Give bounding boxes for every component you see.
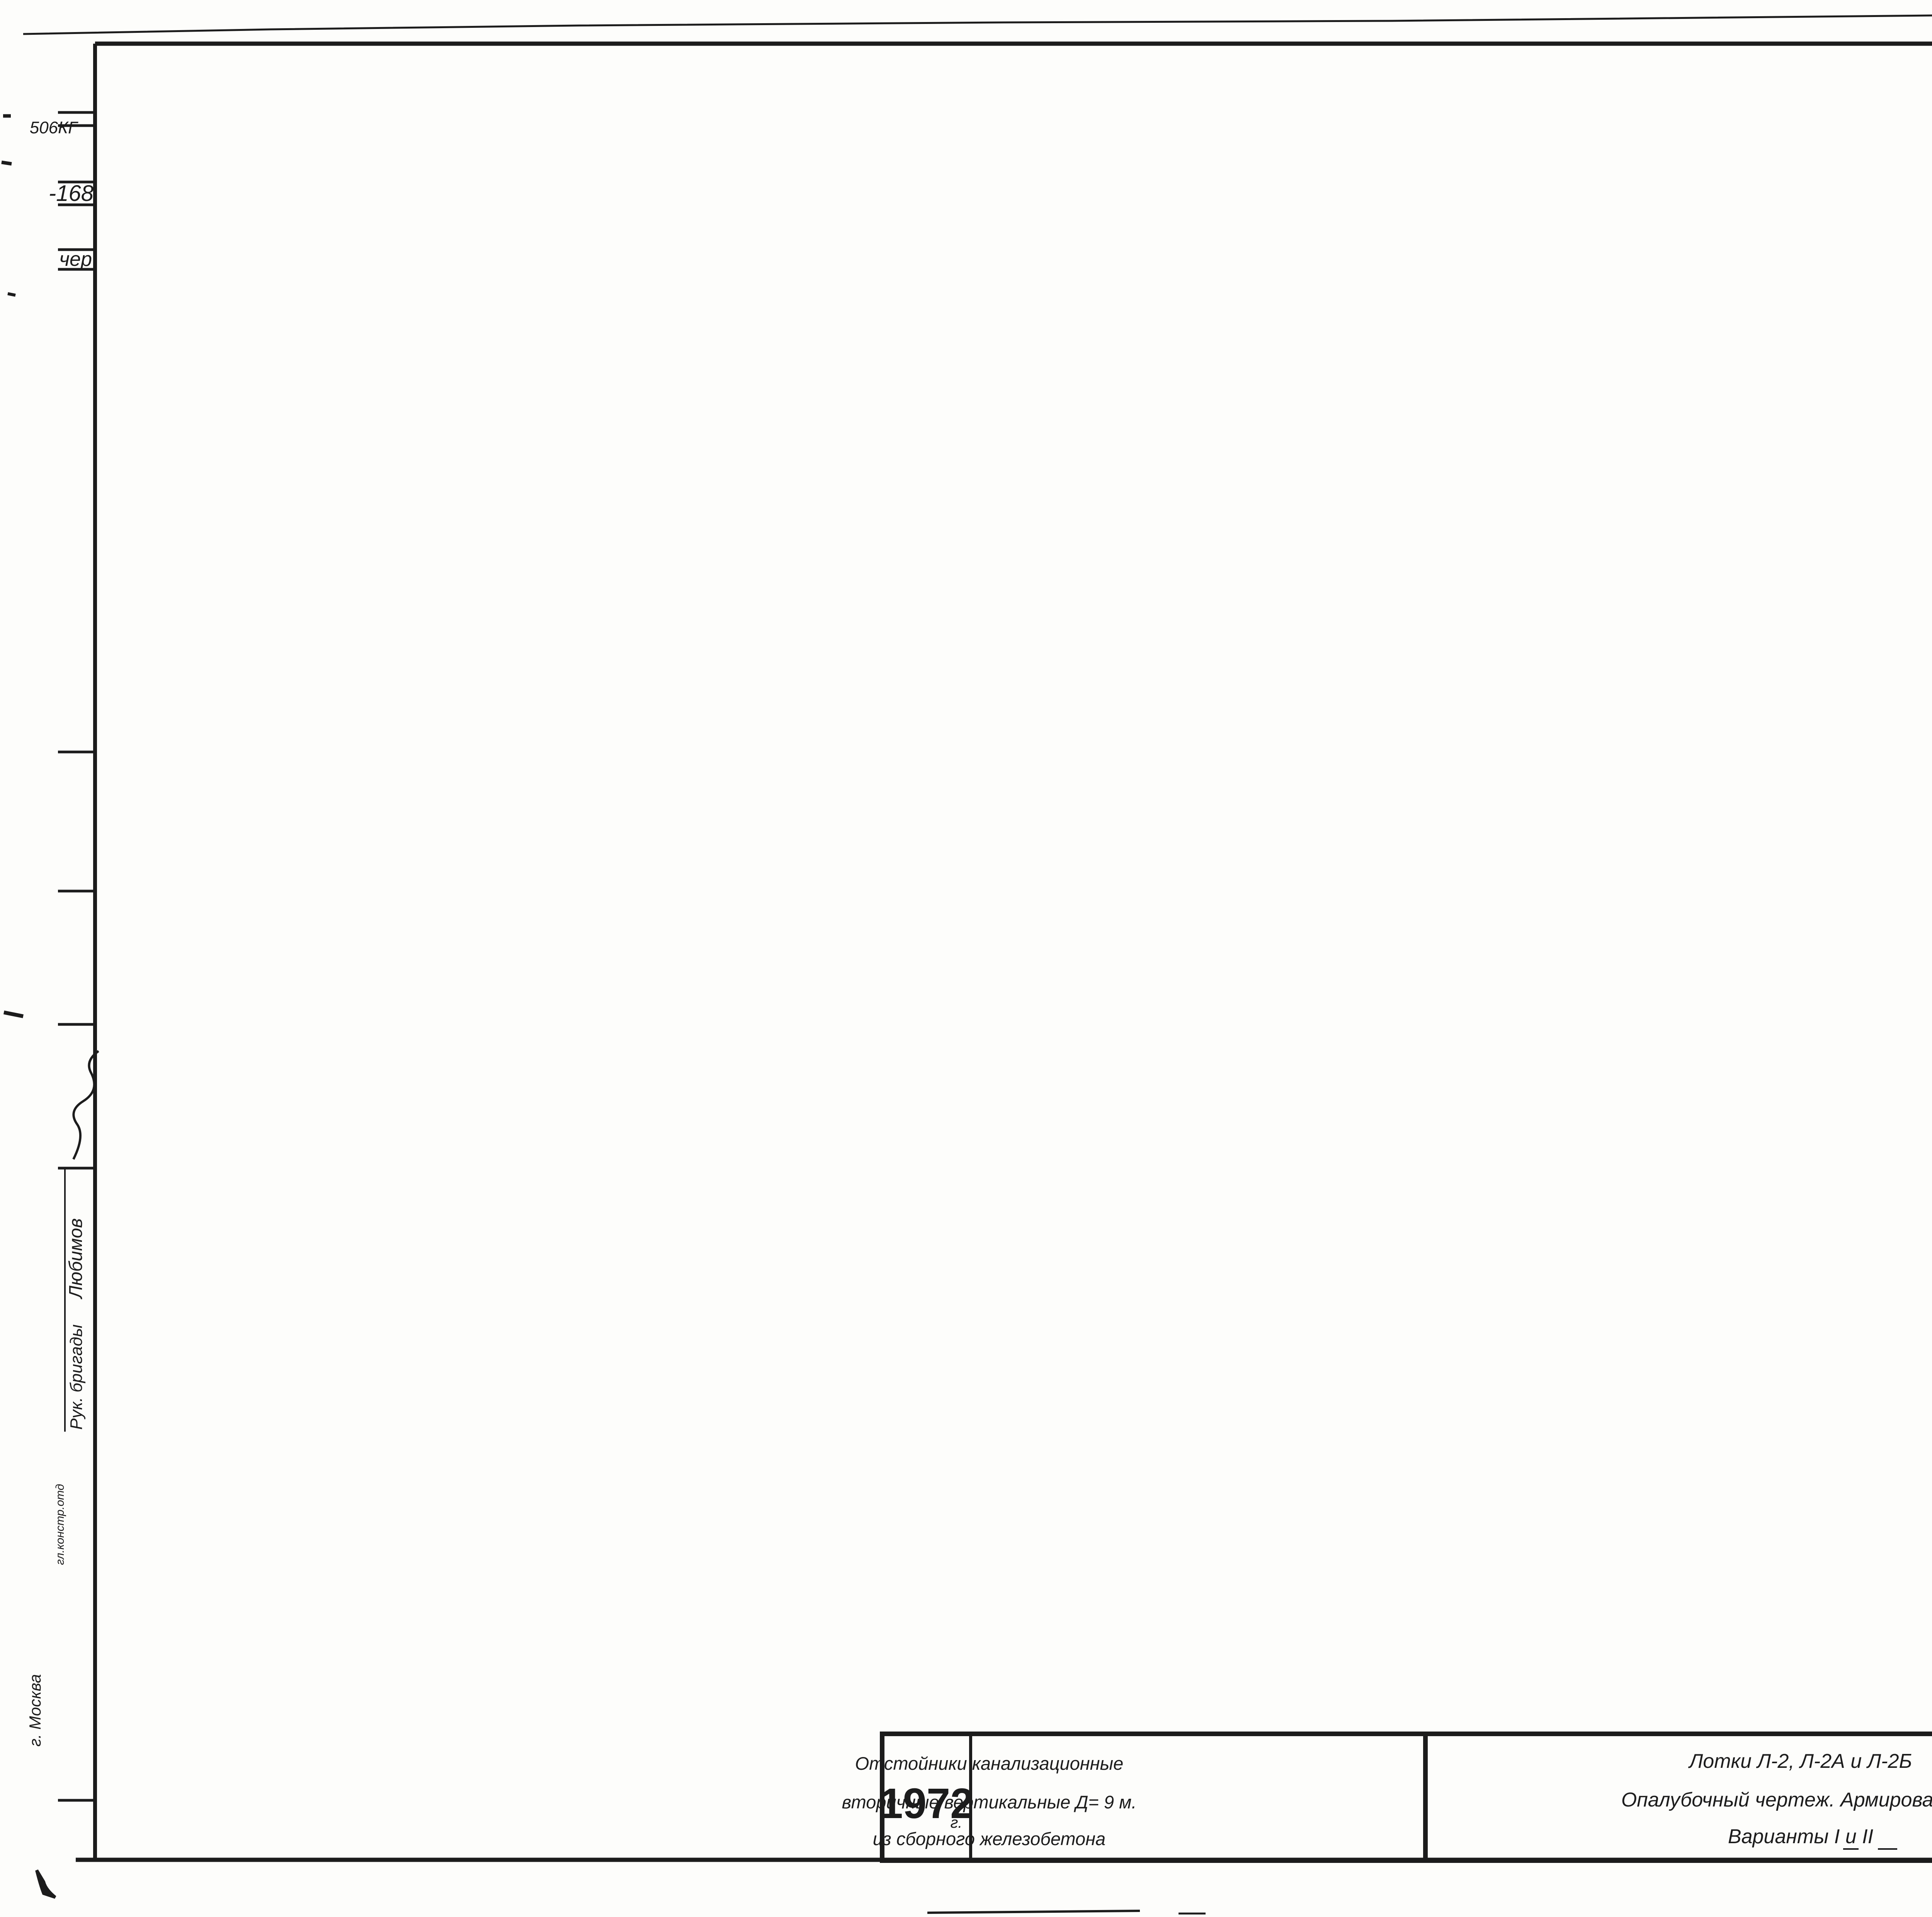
svg-text:Опалубочный чертеж. Армирован: Опалубочный чертеж. Армирование. <box>1621 1789 1932 1811</box>
left margin signature <box>73 1051 99 1159</box>
svg-text:г. Москва: г. Москва <box>26 1674 44 1747</box>
title block outline <box>882 1734 1932 1861</box>
left margin tick marks <box>58 111 95 114</box>
sheet frame top scan smudge line <box>23 9 1932 34</box>
bottom scan dashes <box>927 1911 1140 1913</box>
svg-text:Отстойники канализационные: Отстойники канализационные <box>855 1753 1124 1774</box>
svg-text:чер: чер <box>59 248 92 270</box>
title block vertical separators <box>969 1734 972 1861</box>
svg-text:-168: -168 <box>49 181 94 206</box>
svg-text:Рук. бригады: Рук. бригады <box>67 1324 86 1430</box>
svg-text:Лотки Л-2, Л-2А и Л-2Б: Лотки Л-2, Л-2А и Л-2Б <box>1688 1750 1912 1772</box>
svg-text:вторичные вертикальные Д= 9 м.: вторичные вертикальные Д= 9 м. <box>842 1792 1137 1812</box>
svg-text:Любимов: Любимов <box>66 1218 86 1300</box>
left edge scan marks <box>3 114 11 118</box>
svg-text:из сборного железобетона: из сборного железобетона <box>873 1829 1105 1849</box>
svg-text:Варианты І и ІІ: Варианты І и ІІ <box>1728 1825 1873 1848</box>
svg-text:506КГ: 506КГ <box>30 118 78 137</box>
frame border <box>95 42 1932 46</box>
svg-text:гл.констр.отд: гл.констр.отд <box>54 1484 66 1565</box>
